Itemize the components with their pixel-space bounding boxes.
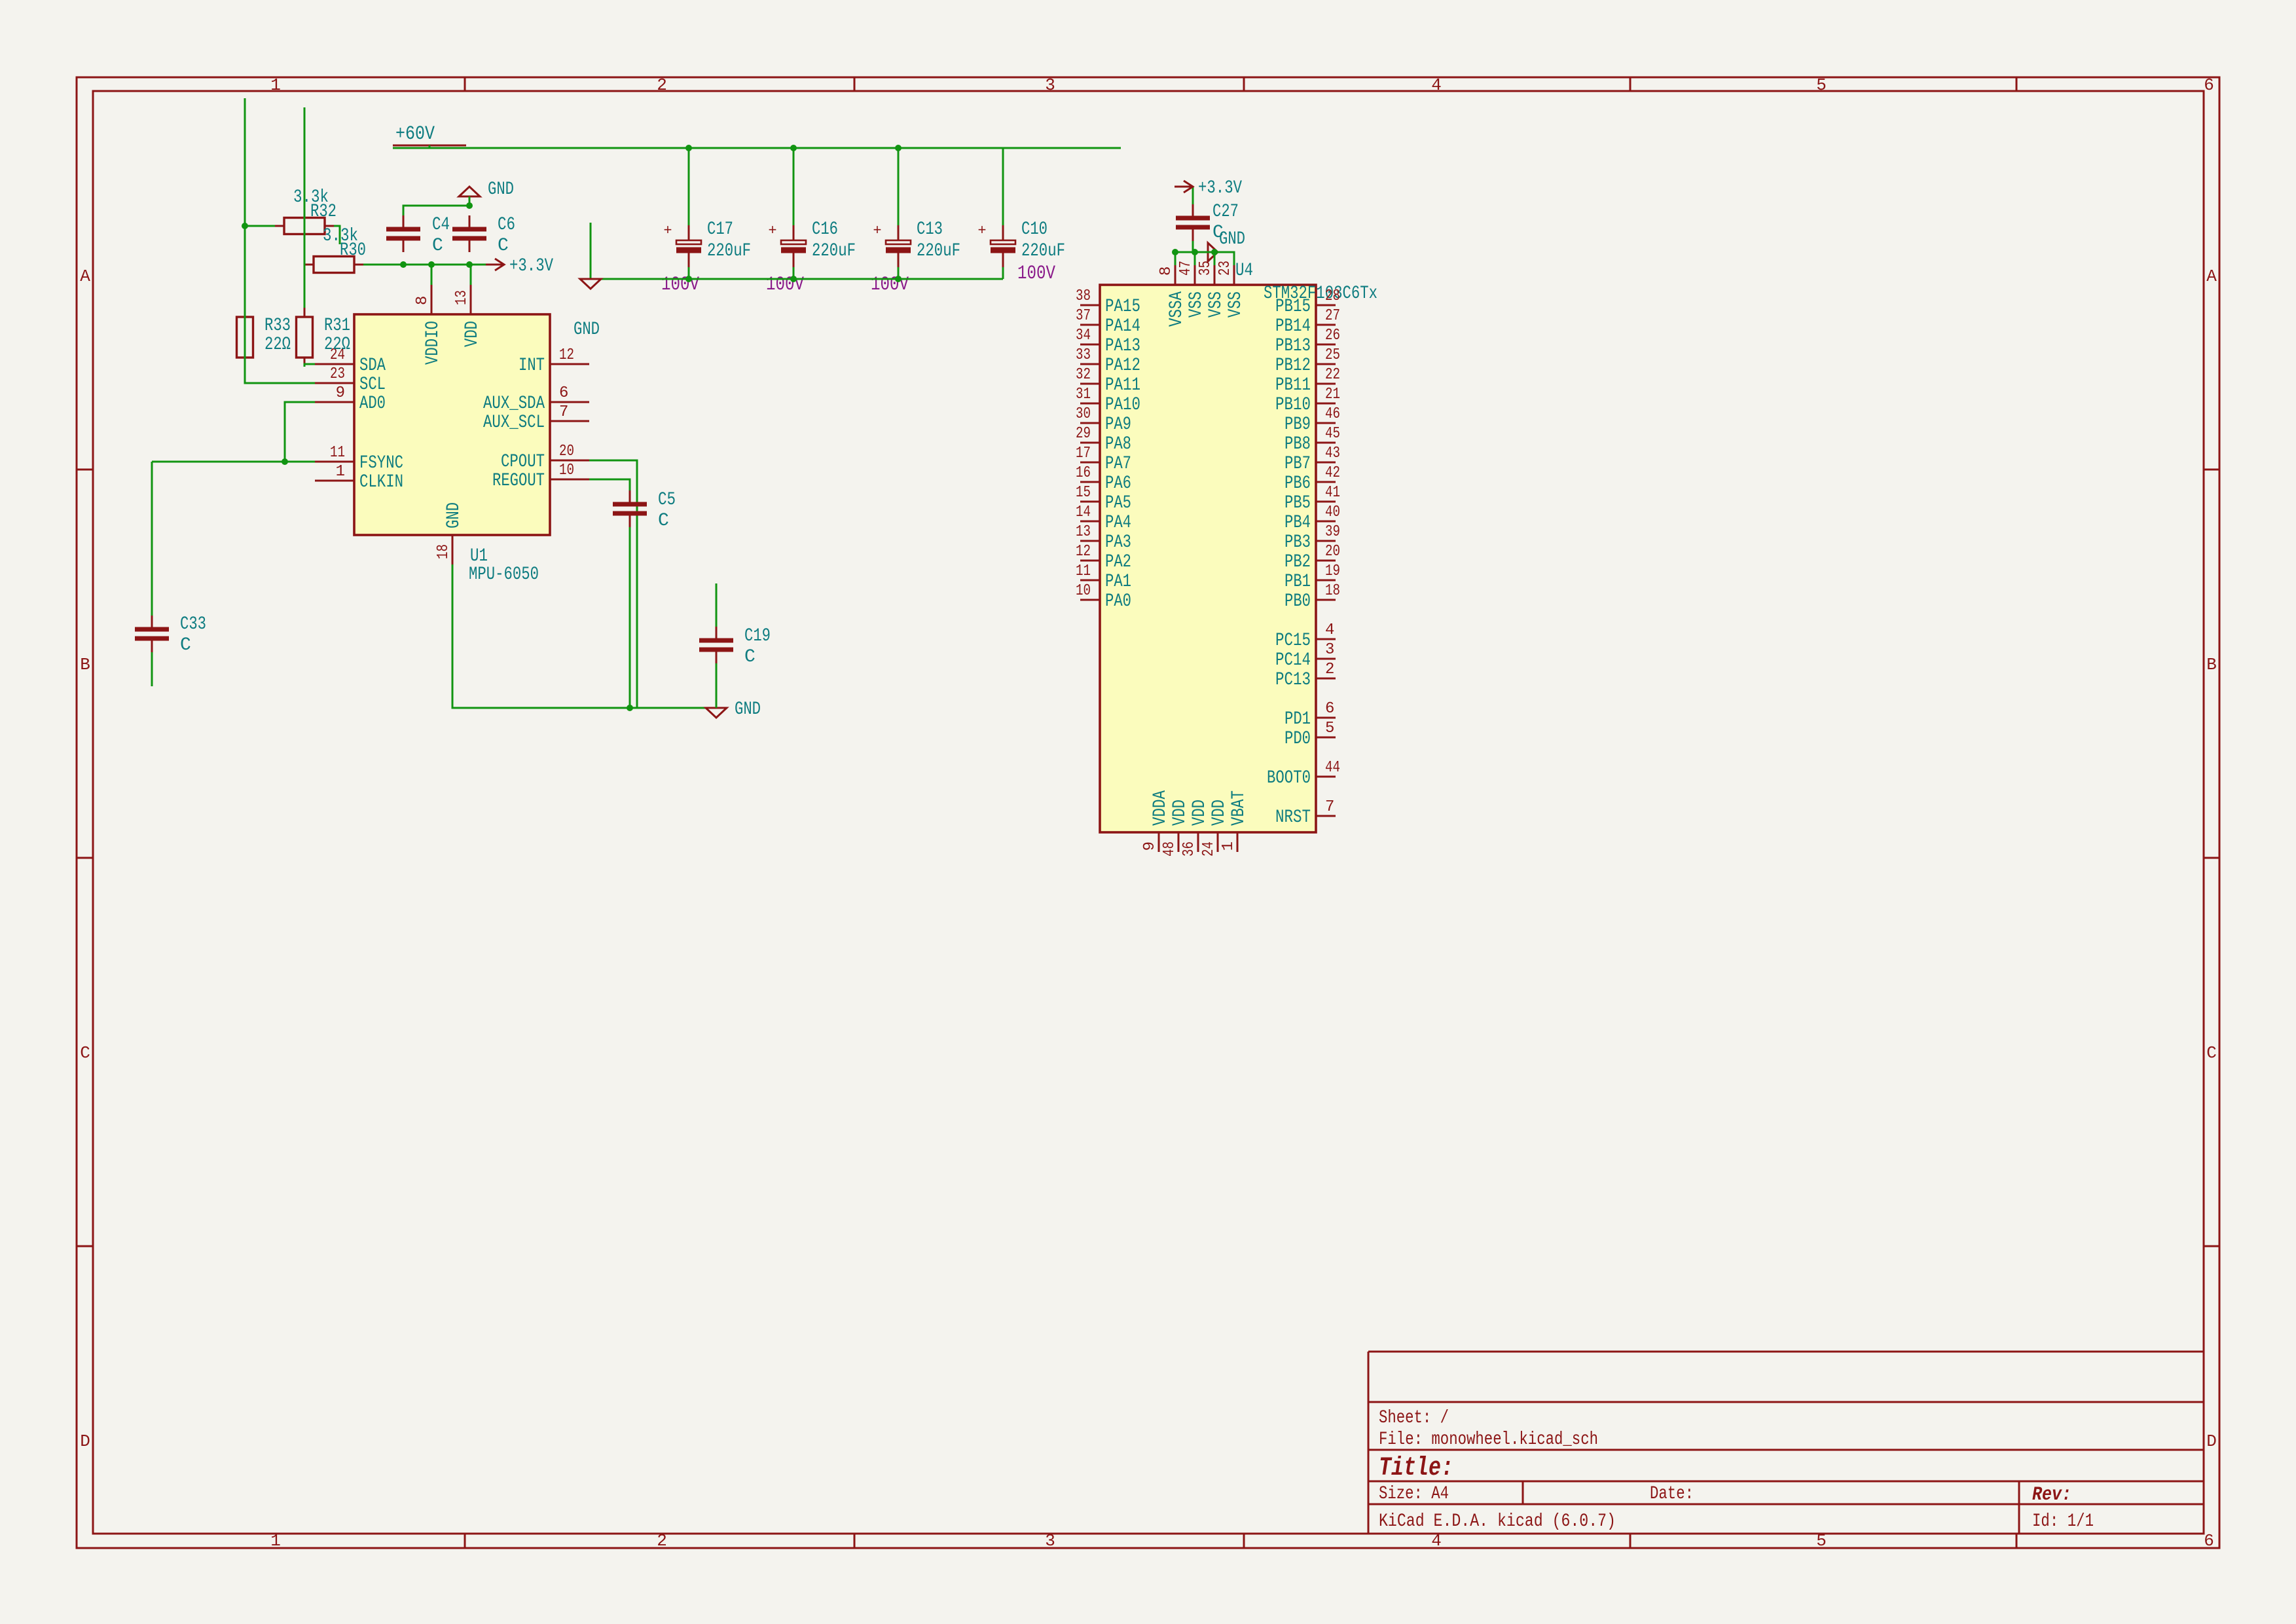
svg-text:3: 3 <box>1045 1531 1055 1551</box>
U1 pin AUX_SCL 7 <box>550 420 589 422</box>
svg-text:6: 6 <box>1325 700 1334 718</box>
U4 pin PB5 41 <box>1316 501 1336 503</box>
svg-text:C6: C6 <box>498 215 515 235</box>
gnd right of C27 <box>1208 243 1218 261</box>
wire to C33 <box>151 462 153 616</box>
svg-text:C5: C5 <box>658 490 676 510</box>
svg-text:43: 43 <box>1325 445 1340 462</box>
U4 pin PA5 15 <box>1080 501 1100 503</box>
svg-text:Date:: Date: <box>1650 1484 1694 1504</box>
svg-text:C: C <box>80 1043 90 1063</box>
svg-text:Sheet: /: Sheet: / <box>1379 1408 1449 1428</box>
svg-text:FSYNC: FSYNC <box>359 453 403 473</box>
svg-text:19: 19 <box>1325 563 1340 580</box>
svg-text:3: 3 <box>1045 75 1055 95</box>
title block <box>1368 1352 2204 1534</box>
svg-text:13: 13 <box>1076 523 1091 541</box>
svg-text:220uF: 220uF <box>707 241 751 261</box>
U4 pin PB4 40 <box>1316 521 1336 523</box>
svg-text:10: 10 <box>1076 582 1091 600</box>
wire R32 left <box>245 225 275 227</box>
svg-text:GND: GND <box>488 179 514 200</box>
svg-text:File: monowheel.kicad_sch: File: monowheel.kicad_sch <box>1379 1430 1598 1450</box>
svg-text:44: 44 <box>1325 759 1340 777</box>
U1 pin SCL 23 <box>315 382 354 384</box>
svg-text:C: C <box>744 647 756 667</box>
svg-text:PA12: PA12 <box>1105 356 1140 376</box>
svg-text:PD1: PD1 <box>1285 709 1311 729</box>
U4 pin VDD 24 <box>1217 832 1219 852</box>
capacitor C4 <box>403 215 405 229</box>
svg-text:20: 20 <box>559 443 574 460</box>
svg-text:GND: GND <box>574 320 600 340</box>
svg-text:A: A <box>2206 267 2217 286</box>
svg-text:PA14: PA14 <box>1105 316 1140 337</box>
capacitor C13 <box>898 225 900 240</box>
svg-text:2: 2 <box>657 1531 667 1551</box>
svg-text:7: 7 <box>559 403 568 421</box>
U4 pin PB7 43 <box>1316 462 1336 464</box>
svg-text:38: 38 <box>1076 287 1091 305</box>
svg-text:PA1: PA1 <box>1105 572 1131 592</box>
svg-text:47: 47 <box>1177 261 1195 276</box>
svg-text:24: 24 <box>1200 841 1218 857</box>
U1 pin AUX_SDA 6 <box>550 401 589 403</box>
svg-text:PB11: PB11 <box>1275 375 1311 396</box>
svg-text:VSS: VSS <box>1226 291 1246 318</box>
U4 pin PB2 20 <box>1316 560 1336 562</box>
svg-text:+60V: +60V <box>395 123 435 145</box>
svg-text:29: 29 <box>1076 425 1091 443</box>
svg-text:PD0: PD0 <box>1285 729 1311 749</box>
svg-text:GND: GND <box>1219 229 1245 249</box>
U4 pin PC15 4 <box>1316 638 1336 640</box>
U1 pin CPOUT 20 <box>550 460 589 462</box>
U4 pin VSS 35 <box>1214 265 1216 285</box>
U4 pin VSS 47 <box>1194 265 1196 285</box>
svg-text:30: 30 <box>1076 405 1091 423</box>
capacitor C27 <box>1192 204 1194 218</box>
wire +60V rail <box>393 147 1121 149</box>
wire gnd stub <box>590 223 592 279</box>
svg-text:32: 32 <box>1076 366 1091 384</box>
svg-text:Rev:: Rev: <box>2032 1484 2071 1506</box>
svg-text:36: 36 <box>1180 841 1198 857</box>
U1 pin INT 12 <box>550 363 589 365</box>
svg-text:PA2: PA2 <box>1105 552 1131 572</box>
svg-text:220uF: 220uF <box>1021 241 1065 261</box>
U1 pin AD0 9 <box>315 401 354 403</box>
svg-text:PC15: PC15 <box>1275 631 1311 651</box>
svg-text:PB7: PB7 <box>1285 454 1311 474</box>
svg-text:PB3: PB3 <box>1285 532 1311 553</box>
svg-text:C13: C13 <box>917 219 943 240</box>
svg-text:VDD: VDD <box>1209 800 1230 826</box>
svg-text:C: C <box>2206 1043 2217 1063</box>
svg-text:PB10: PB10 <box>1275 395 1311 415</box>
svg-text:C17: C17 <box>707 219 733 240</box>
svg-text:5: 5 <box>1325 720 1334 737</box>
svg-text:PA0: PA0 <box>1105 591 1131 612</box>
svg-text:17: 17 <box>1076 445 1091 462</box>
REGOUT wire to C5 <box>589 479 630 504</box>
U4 pin PB11 22 <box>1316 383 1336 385</box>
U4 pin PA7 17 <box>1080 462 1100 464</box>
resistor R32 <box>275 225 334 227</box>
svg-text:INT: INT <box>519 356 545 376</box>
svg-text:+: + <box>768 223 776 239</box>
svg-text:KiCad E.D.A. kicad (6.0.7): KiCad E.D.A. kicad (6.0.7) <box>1379 1511 1616 1532</box>
svg-text:PA10: PA10 <box>1105 395 1140 415</box>
svg-text:C: C <box>498 236 509 256</box>
svg-text:R33: R33 <box>264 316 291 336</box>
svg-text:C4: C4 <box>432 215 450 235</box>
VDDIO VDD to rail <box>431 265 433 285</box>
svg-text:35: 35 <box>1197 261 1214 276</box>
+3.3V rail from R30 <box>363 264 488 266</box>
svg-text:37: 37 <box>1076 307 1091 325</box>
svg-text:PB8: PB8 <box>1285 434 1311 454</box>
wire C4/C6 top to gnd <box>403 206 469 215</box>
C19 top wire <box>716 583 718 627</box>
svg-text:28: 28 <box>1325 287 1340 305</box>
vertical x374 bus to SCL <box>245 98 315 383</box>
svg-text:VBAT: VBAT <box>1229 790 1249 826</box>
IC U4 STM32F103C6Tx <box>1100 285 1316 832</box>
resistor R33 <box>244 308 246 367</box>
U4 pin PA6 16 <box>1080 481 1100 483</box>
wire vertical x465 to SDA <box>304 107 306 308</box>
svg-text:C: C <box>432 236 443 256</box>
svg-text:PA15: PA15 <box>1105 297 1140 317</box>
C5 bottom to gnd rail <box>629 527 631 708</box>
svg-text:23: 23 <box>1216 261 1234 276</box>
svg-text:9: 9 <box>336 384 345 402</box>
svg-text:VSSA: VSSA <box>1167 291 1187 327</box>
svg-text:100V: 100V <box>661 274 699 296</box>
U4 pin PA1 11 <box>1080 580 1100 581</box>
svg-text:22: 22 <box>1325 366 1340 384</box>
capacitor C19 <box>716 627 718 640</box>
svg-text:10: 10 <box>559 462 574 479</box>
wire C27 bottom to VSS <box>1175 241 1193 265</box>
svg-text:U1: U1 <box>470 546 488 566</box>
U1 pin FSYNC 11 <box>315 461 354 463</box>
svg-text:6: 6 <box>559 384 568 402</box>
svg-text:14: 14 <box>1076 504 1091 521</box>
svg-text:AUX_SDA: AUX_SDA <box>483 394 545 414</box>
svg-text:12: 12 <box>1076 543 1091 561</box>
+60V rail wire <box>429 145 431 148</box>
wire AD0 left down <box>285 402 315 462</box>
svg-text:PB14: PB14 <box>1275 316 1311 337</box>
U1 pin VDD 13 <box>470 285 472 314</box>
svg-text:+3.3V: +3.3V <box>1198 178 1242 198</box>
U4 pin PC14 3 <box>1316 658 1336 660</box>
VSS stubs tie <box>1175 252 1176 265</box>
svg-text:PB4: PB4 <box>1285 513 1311 533</box>
wire R31 to SDA <box>304 364 315 367</box>
svg-text:1: 1 <box>270 1531 281 1551</box>
U4 pin PD0 5 <box>1316 737 1336 739</box>
svg-text:42: 42 <box>1325 464 1340 482</box>
svg-text:VDD: VDD <box>462 321 483 347</box>
svg-text:31: 31 <box>1076 386 1091 403</box>
svg-text:4: 4 <box>1431 75 1442 95</box>
U4 pin PA8 29 <box>1080 442 1100 444</box>
U4 pin PC13 2 <box>1316 678 1336 680</box>
svg-text:B: B <box>2206 655 2217 674</box>
svg-text:220uF: 220uF <box>812 241 856 261</box>
svg-text:3: 3 <box>1325 641 1334 659</box>
svg-text:PC13: PC13 <box>1275 670 1311 690</box>
svg-text:20: 20 <box>1325 543 1340 561</box>
svg-text:PB15: PB15 <box>1275 297 1311 317</box>
capacitor C10 <box>1002 225 1004 240</box>
svg-text:PB13: PB13 <box>1275 336 1311 356</box>
svg-text:VDD: VDD <box>1170 800 1190 826</box>
resistor R31 <box>304 308 306 367</box>
U4 pin PA3 13 <box>1080 540 1100 542</box>
U4 pin PB1 19 <box>1316 580 1336 581</box>
svg-text:13: 13 <box>453 290 471 305</box>
svg-text:PC14: PC14 <box>1275 650 1311 671</box>
U4 pin PA15 38 <box>1080 304 1100 306</box>
U4 pin PA11 32 <box>1080 383 1100 385</box>
svg-text:PA6: PA6 <box>1105 473 1131 494</box>
U4 pin PB9 46 <box>1316 422 1336 424</box>
wire +3.3V to C27 <box>1192 187 1194 204</box>
gnd below C19 <box>706 708 727 718</box>
svg-text:PA5: PA5 <box>1105 493 1131 513</box>
svg-text:39: 39 <box>1325 523 1340 541</box>
svg-text:2: 2 <box>1325 661 1334 678</box>
U4 pin VDD 48 <box>1178 832 1180 852</box>
svg-text:12: 12 <box>559 346 574 364</box>
svg-text:220uF: 220uF <box>917 241 960 261</box>
svg-text:PA13: PA13 <box>1105 336 1140 356</box>
svg-text:SDA: SDA <box>359 356 386 376</box>
svg-text:CLKIN: CLKIN <box>359 472 403 492</box>
svg-text:22Ω: 22Ω <box>264 335 291 355</box>
svg-text:D: D <box>80 1431 90 1451</box>
svg-text:C16: C16 <box>812 219 838 240</box>
svg-text:C10: C10 <box>1021 219 1048 240</box>
U1 GND pin rail <box>452 564 716 708</box>
U4 pin PD1 6 <box>1316 717 1336 719</box>
svg-text:PB2: PB2 <box>1285 552 1311 572</box>
svg-text:Size: A4: Size: A4 <box>1379 1484 1449 1504</box>
svg-text:BOOT0: BOOT0 <box>1267 768 1311 788</box>
capacitor C5 <box>629 490 631 504</box>
U4 pin PB15 28 <box>1316 304 1336 306</box>
power +3.3V arrow <box>486 264 504 266</box>
svg-text:PA3: PA3 <box>1105 532 1131 553</box>
svg-text:48: 48 <box>1161 841 1178 857</box>
capacitor C33 <box>151 616 153 629</box>
svg-text:8: 8 <box>414 296 431 305</box>
svg-text:MPU-6050: MPU-6050 <box>469 564 539 585</box>
svg-text:GND: GND <box>735 699 761 720</box>
svg-text:22Ω: 22Ω <box>324 335 350 355</box>
gnd left of caps row <box>580 279 601 289</box>
U1 pin REGOUT 10 <box>550 479 589 481</box>
svg-text:11: 11 <box>330 444 345 462</box>
svg-text:23: 23 <box>330 365 345 383</box>
svg-text:SCL: SCL <box>359 375 386 395</box>
U4 pin VDDA 9 <box>1158 832 1160 852</box>
U1 pin VDDIO 8 <box>431 285 433 314</box>
svg-text:C: C <box>658 511 669 531</box>
svg-text:6: 6 <box>2204 75 2214 95</box>
U4 pin PA9 30 <box>1080 422 1100 424</box>
svg-text:100V: 100V <box>766 274 804 296</box>
svg-text:4: 4 <box>1431 1531 1442 1551</box>
U4 pin PB14 27 <box>1316 324 1336 326</box>
U4 pin PB0 18 <box>1316 599 1336 601</box>
U4 pin PA12 33 <box>1080 363 1100 365</box>
svg-text:PB1: PB1 <box>1285 572 1311 592</box>
U4 pin PB6 42 <box>1316 481 1336 483</box>
gnd above C6 <box>459 187 480 196</box>
svg-text:NRST: NRST <box>1275 807 1311 828</box>
svg-text:5: 5 <box>1816 75 1827 95</box>
svg-text:7: 7 <box>1325 798 1334 816</box>
U4 pin NRST 7 <box>1316 815 1336 817</box>
svg-text:C19: C19 <box>744 626 771 646</box>
svg-text:B: B <box>80 655 90 674</box>
wire C33 bottom <box>151 652 153 686</box>
IC U1 MPU-6050 <box>354 314 550 535</box>
wire FSYNC <box>152 461 315 463</box>
U4 pin BOOT0 44 <box>1316 776 1336 778</box>
svg-text:PB0: PB0 <box>1285 591 1311 612</box>
svg-text:46: 46 <box>1325 405 1340 423</box>
svg-text:26: 26 <box>1325 327 1340 344</box>
wire R32 right to R30 <box>334 226 340 244</box>
U4 pin PA0 10 <box>1080 599 1100 601</box>
svg-text:D: D <box>2206 1431 2217 1451</box>
capacitor C6 <box>469 215 471 229</box>
svg-text:18: 18 <box>1325 582 1340 600</box>
svg-text:45: 45 <box>1325 425 1340 443</box>
svg-text:PA8: PA8 <box>1105 434 1131 454</box>
svg-text:VSS: VSS <box>1186 291 1207 318</box>
svg-text:C27: C27 <box>1212 202 1239 222</box>
U4 pin PA4 14 <box>1080 521 1100 523</box>
svg-text:VSS: VSS <box>1206 291 1226 318</box>
svg-text:PB9: PB9 <box>1285 415 1311 435</box>
capacitor C16 <box>793 225 795 240</box>
svg-text:27: 27 <box>1325 307 1340 325</box>
svg-text:R32: R32 <box>310 202 337 222</box>
+60V power symbol <box>393 145 466 147</box>
svg-text:6: 6 <box>2204 1531 2214 1551</box>
U4 pin PB13 26 <box>1316 344 1336 346</box>
svg-text:1: 1 <box>1220 841 1237 851</box>
svg-text:PA4: PA4 <box>1105 513 1131 533</box>
wire R33 to SCL pin <box>244 367 246 383</box>
U4 pin VDD 36 <box>1197 832 1199 852</box>
svg-text:1: 1 <box>270 75 281 95</box>
U4 pin PB12 25 <box>1316 363 1336 365</box>
svg-text:AUX_SCL: AUX_SCL <box>483 413 545 433</box>
svg-text:100V: 100V <box>1017 263 1055 285</box>
CPOUT wire <box>589 460 637 708</box>
svg-text:18: 18 <box>435 544 452 559</box>
U1 pin CLKIN 1 <box>315 480 354 482</box>
U1 pin SDA 24 <box>315 363 354 365</box>
svg-text:Title:: Title: <box>1379 1454 1453 1483</box>
gnd rail under caps <box>591 278 1003 280</box>
svg-text:R30: R30 <box>340 240 366 261</box>
svg-text:CPOUT: CPOUT <box>501 452 545 472</box>
svg-text:4: 4 <box>1325 621 1334 639</box>
svg-text:REGOUT: REGOUT <box>492 471 545 491</box>
svg-text:+: + <box>873 223 881 239</box>
U4 pin VBAT 1 <box>1237 832 1239 852</box>
svg-text:34: 34 <box>1076 327 1091 344</box>
U4 pin PA10 31 <box>1080 403 1100 405</box>
svg-text:PA9: PA9 <box>1105 415 1131 435</box>
svg-text:11: 11 <box>1076 563 1091 580</box>
svg-text:5: 5 <box>1816 1531 1827 1551</box>
U4 pin VSS 23 <box>1233 265 1235 285</box>
U1 pin GND 18 <box>452 535 454 564</box>
capacitor C17 <box>688 225 690 240</box>
svg-text:1: 1 <box>336 463 345 481</box>
svg-text:PB5: PB5 <box>1285 493 1311 513</box>
svg-text:VDDA: VDDA <box>1150 790 1171 826</box>
U4 pin PB3 39 <box>1316 540 1336 542</box>
svg-text:+3.3V: +3.3V <box>509 256 553 276</box>
svg-text:Id: 1/1: Id: 1/1 <box>2032 1511 2094 1532</box>
svg-text:C33: C33 <box>180 614 206 635</box>
svg-text:15: 15 <box>1076 484 1091 502</box>
U4 pin PB10 21 <box>1316 403 1336 405</box>
svg-text:33: 33 <box>1076 346 1091 364</box>
svg-text:8: 8 <box>1157 267 1175 276</box>
svg-text:+: + <box>663 223 672 239</box>
U4 pin PA14 37 <box>1080 324 1100 326</box>
svg-text:AD0: AD0 <box>359 394 386 414</box>
resistor R30 <box>304 264 363 266</box>
svg-text:R31: R31 <box>324 316 350 336</box>
U4 pin VSSA 8 <box>1175 265 1176 285</box>
svg-text:PB6: PB6 <box>1285 473 1311 494</box>
U4 pin PA13 34 <box>1080 344 1100 346</box>
U4 pin PB8 45 <box>1316 442 1336 444</box>
C19 bottom wire <box>716 663 718 708</box>
svg-text:25: 25 <box>1325 346 1340 364</box>
svg-text:GND: GND <box>444 502 464 528</box>
svg-text:VDD: VDD <box>1190 800 1210 826</box>
svg-text:+: + <box>977 223 986 239</box>
svg-text:9: 9 <box>1141 841 1159 851</box>
svg-text:PA7: PA7 <box>1105 454 1131 474</box>
svg-text:A: A <box>80 267 90 286</box>
svg-text:40: 40 <box>1325 504 1340 521</box>
svg-text:100V: 100V <box>871 274 909 296</box>
svg-text:16: 16 <box>1076 464 1091 482</box>
svg-text:PA11: PA11 <box>1105 375 1140 396</box>
svg-text:U4: U4 <box>1235 261 1253 281</box>
svg-text:21: 21 <box>1325 386 1340 403</box>
svg-text:C: C <box>180 635 191 655</box>
svg-text:PB12: PB12 <box>1275 356 1311 376</box>
U4 pin PA2 12 <box>1080 560 1100 562</box>
svg-text:2: 2 <box>657 75 667 95</box>
